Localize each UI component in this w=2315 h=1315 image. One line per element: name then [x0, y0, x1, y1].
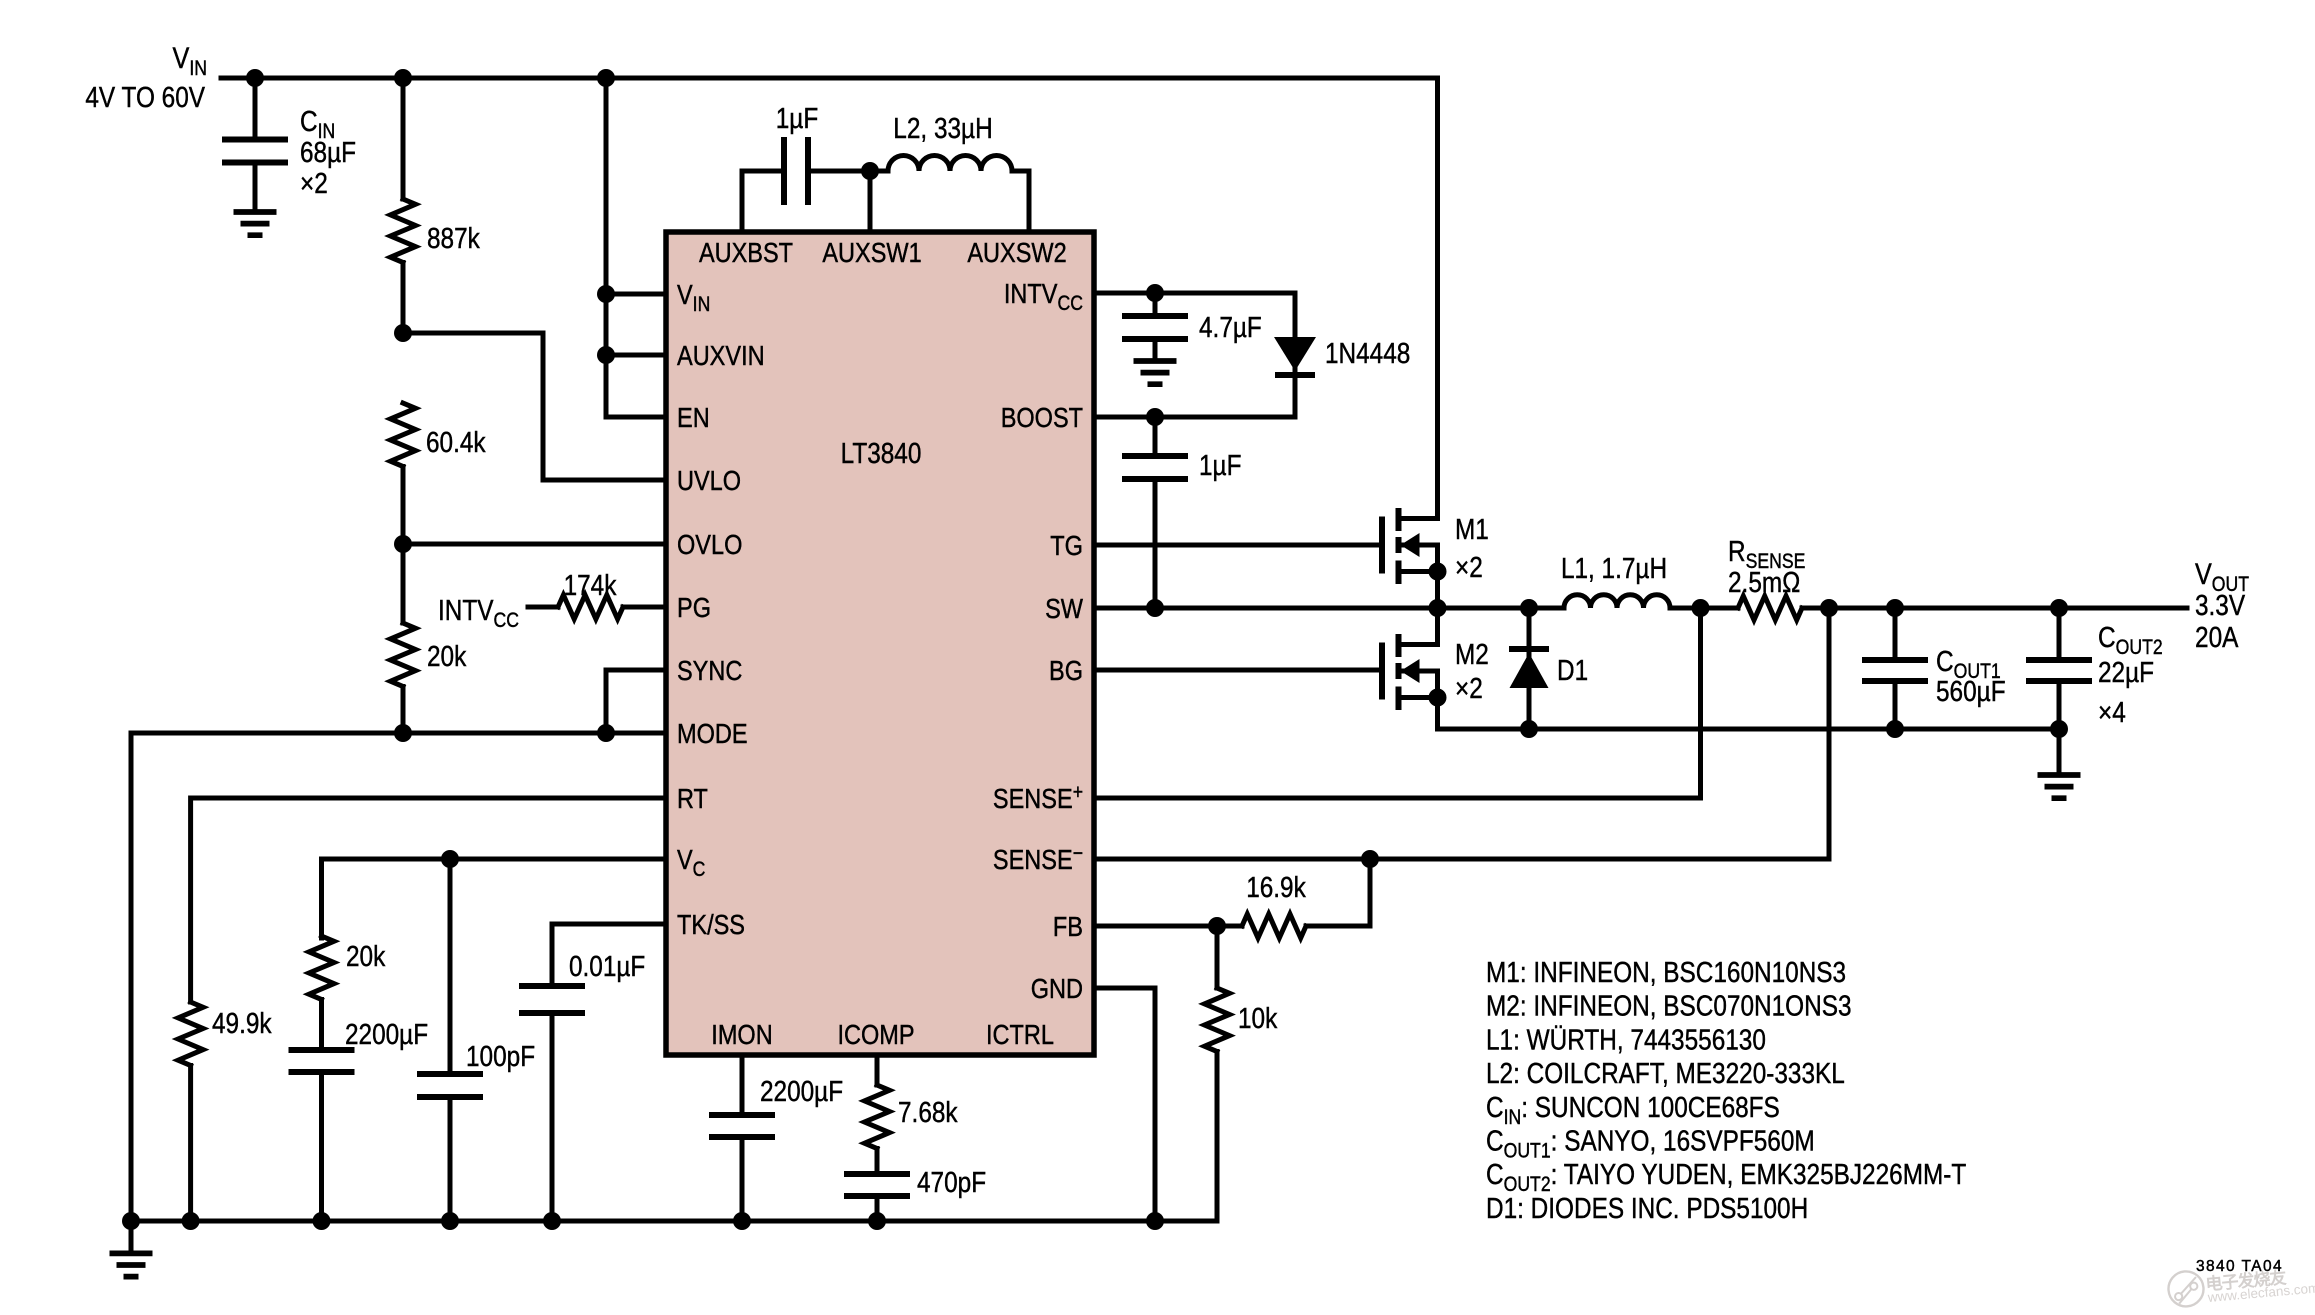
- wire AUXBST loop: [742, 171, 784, 232]
- svg-text:M2: INFINEON, BSC070N1ONS3: M2: INFINEON, BSC070N1ONS3: [1486, 991, 1852, 1023]
- wire BG line: [1094, 668, 1382, 673]
- svg-text:×2: ×2: [1455, 673, 1483, 705]
- junction VIN rail / VIN-AUXVIN branch: [597, 69, 615, 87]
- capacitor 100pF: [417, 859, 535, 1221]
- U1 right pin labels: [993, 278, 1084, 1004]
- junction rail / 0.01uF: [543, 1212, 561, 1230]
- resistor 174k: [528, 570, 666, 619]
- junction SW / 1uF boost return: [1146, 599, 1164, 617]
- capacitor 1uF (BOOST): [1122, 417, 1242, 608]
- wire VC line: [322, 859, 667, 938]
- resistor 887k: [391, 78, 481, 333]
- svg-text:174k: 174k: [564, 570, 617, 602]
- capacitor 470pF: [844, 1167, 986, 1221]
- svg-text:68µF: 68µF: [300, 137, 356, 169]
- svg-text:L1, 1.7µH: L1, 1.7µH: [1561, 553, 1667, 585]
- transistor M2 x2: [1382, 608, 1489, 710]
- svg-text:PG: PG: [677, 592, 711, 623]
- svg-text:TG: TG: [1050, 530, 1083, 561]
- junction COUT2 / output ground rail: [2050, 720, 2068, 738]
- svg-text:2200µF: 2200µF: [760, 1076, 843, 1108]
- junction 60.4k / 20k / OVLO: [394, 535, 412, 553]
- junction SYNC / MODE: [597, 724, 615, 742]
- junction D1 / output ground rail: [1520, 720, 1538, 738]
- svg-text:4.7µF: 4.7µF: [1199, 312, 1262, 344]
- svg-text:VIN: VIN: [173, 42, 208, 80]
- ground (CIN): [234, 212, 277, 235]
- junction VOUT / COUT1: [1886, 599, 1904, 617]
- wire TK/SS line: [552, 924, 666, 986]
- svg-text:49.9k: 49.9k: [212, 1008, 272, 1040]
- wire GND pin to rail: [1094, 988, 1155, 1221]
- svg-text:COUT1: SANYO, 16SVPF560M: COUT1: SANYO, 16SVPF560M: [1486, 1126, 1815, 1163]
- capacitor COUT2 22uF x4: [2026, 608, 2163, 729]
- junction rail / left vertical: [122, 1212, 140, 1230]
- svg-text:RT: RT: [677, 783, 708, 814]
- svg-text:22µF: 22µF: [2098, 657, 2154, 689]
- svg-text:COUT2: COUT2: [2098, 622, 2163, 659]
- svg-text:7.68k: 7.68k: [898, 1097, 958, 1129]
- junction INTVCC / 4.7uF: [1146, 284, 1164, 302]
- junction L1 / RSENSE / SENSE+: [1692, 599, 1710, 617]
- diode 1N4448: [1274, 293, 1410, 417]
- junction VIN pin: [597, 285, 615, 303]
- junction rail / 2200uF VC: [313, 1212, 331, 1230]
- svg-text:L1: WÜRTH, 7443556130: L1: WÜRTH, 7443556130: [1486, 1024, 1766, 1056]
- wire FB line: [1094, 924, 1242, 929]
- svg-text:ICOMP: ICOMP: [837, 1019, 914, 1050]
- svg-text:0.01µF: 0.01µF: [569, 951, 645, 983]
- junction rail / ICOMP network: [868, 1212, 886, 1230]
- svg-text:560µF: 560µF: [1936, 676, 2006, 708]
- svg-text:2.5mΩ: 2.5mΩ: [1728, 567, 1800, 599]
- junction SW / M1 M2: [1429, 599, 1447, 617]
- resistor 10k: [1205, 926, 1278, 1221]
- junction rail / 49.9k: [182, 1212, 200, 1230]
- wire VIN/AUXVIN/EN branch: [606, 78, 666, 417]
- resistor 7.68k: [865, 1055, 959, 1174]
- svg-text:887k: 887k: [427, 223, 480, 255]
- svg-text:BG: BG: [1049, 655, 1083, 686]
- wire M2 source to output ground rail: [1435, 698, 1440, 730]
- svg-text:MODE: MODE: [677, 718, 748, 749]
- svg-text:CIN: SUNCON 100CE68FS: CIN: SUNCON 100CE68FS: [1486, 1092, 1780, 1129]
- svg-text:16.9k: 16.9k: [1246, 872, 1306, 904]
- svg-text:M1: INFINEON, BSC160N10NS3: M1: INFINEON, BSC160N10NS3: [1486, 957, 1846, 989]
- resistor 20k (divider): [391, 544, 467, 733]
- wire SW line: [1094, 606, 1564, 611]
- wire output ground rail: [1438, 727, 2060, 732]
- svg-text:LT3840: LT3840: [841, 438, 922, 470]
- svg-text:60.4k: 60.4k: [426, 427, 486, 459]
- resistor 60.4k: [391, 403, 487, 544]
- svg-text:COUT2: TAIYO YUDEN, EMK325BJ22: COUT2: TAIYO YUDEN, EMK325BJ226MM-T: [1486, 1159, 1967, 1196]
- U1 left pin labels: [677, 279, 765, 940]
- junction GND / bottom rail: [1146, 1212, 1164, 1230]
- svg-text:3.3V: 3.3V: [2195, 590, 2246, 622]
- capacitor 0.01uF: [519, 951, 645, 1221]
- wire SENSE- line: [1094, 608, 1829, 859]
- U1 bottom pin labels IMON ICOMP ICTRL: [711, 1019, 1054, 1050]
- capacitor 4.7uF: [1122, 293, 1262, 359]
- resistor RSENSE 2.5mOhm: [1728, 536, 2187, 620]
- svg-text:M1: M1: [1455, 514, 1489, 546]
- svg-text:INTVCC: INTVCC: [438, 595, 519, 632]
- junction RSENSE / SENSE-: [1820, 599, 1838, 617]
- resistor 20k (VC): [309, 936, 386, 1050]
- svg-text:M2: M2: [1455, 639, 1489, 671]
- svg-text:20k: 20k: [346, 941, 386, 973]
- wire M1 source to SW: [1435, 572, 1440, 609]
- junction rail / IMON cap: [733, 1212, 751, 1230]
- capacitor COUT1 560uF: [1862, 608, 2006, 729]
- wire SYNC to MODE: [606, 670, 666, 733]
- resistor 16.9k: [1242, 859, 1370, 938]
- wire RT line: [191, 798, 666, 1002]
- junction 16.9k / SENSE- line: [1361, 850, 1379, 868]
- svg-text:×2: ×2: [300, 168, 328, 200]
- capacitor 1uF (AUXBST): [776, 103, 819, 205]
- svg-text:20k: 20k: [427, 641, 467, 673]
- watermark elecfans logo and text: [2167, 1260, 2315, 1308]
- junction FB / 10k: [1208, 917, 1226, 935]
- wire INTVCC line: [1094, 291, 1295, 296]
- svg-text:EN: EN: [677, 402, 710, 433]
- svg-text:AUXSW2: AUXSW2: [967, 237, 1066, 268]
- junction VIN rail / 887k divider: [394, 69, 412, 87]
- svg-text:20A: 20A: [2195, 622, 2239, 654]
- svg-text:AUXVIN: AUXVIN: [677, 340, 765, 371]
- svg-text:L2, 33µH: L2, 33µH: [893, 113, 992, 145]
- svg-text:BOOST: BOOST: [1001, 402, 1083, 433]
- wire ground bottom rail: [131, 1219, 1217, 1224]
- svg-text:100pF: 100pF: [466, 1041, 535, 1073]
- svg-text:D1: D1: [1557, 655, 1588, 687]
- svg-text:SENSE+: SENSE+: [993, 781, 1083, 814]
- svg-text:D1: DIODES INC. PDS5100H: D1: DIODES INC. PDS5100H: [1486, 1193, 1808, 1225]
- junction SW / D1: [1520, 599, 1538, 617]
- svg-text:SYNC: SYNC: [677, 655, 742, 686]
- svg-text:1µF: 1µF: [776, 103, 819, 135]
- ground (INTVCC 4.7uF): [1134, 361, 1177, 384]
- U1 top pin labels AUXBST AUXSW1 AUXSW2: [699, 237, 1067, 268]
- wire MODE line: [131, 733, 666, 1221]
- svg-text:TK/SS: TK/SS: [677, 909, 745, 940]
- junction COUT1 / output ground rail: [1886, 720, 1904, 738]
- svg-text:L2: COILCRAFT, ME3220-333KL: L2: COILCRAFT, ME3220-333KL: [1486, 1058, 1845, 1090]
- svg-text:×4: ×4: [2098, 697, 2126, 729]
- ground (main): [110, 1221, 153, 1277]
- inductor L2 33uH: [888, 113, 1029, 232]
- node VIN input label: [85, 42, 207, 114]
- capacitor 2200uF (VC): [289, 1019, 429, 1221]
- wire UVLO branch: [403, 333, 666, 480]
- transistor M1 x2: [1382, 508, 1489, 584]
- svg-text:OVLO: OVLO: [677, 529, 742, 560]
- svg-text:SENSE−: SENSE−: [993, 842, 1083, 875]
- junction divider bottom / MODE line: [394, 724, 412, 742]
- diode D1: [1509, 608, 1588, 729]
- svg-text:4V TO 60V: 4V TO 60V: [85, 82, 205, 114]
- component list text block: [1486, 957, 1967, 1225]
- svg-text:IMON: IMON: [711, 1019, 772, 1050]
- svg-text:AUXSW1: AUXSW1: [822, 237, 921, 268]
- wire SENSE+ line: [1094, 608, 1701, 798]
- ground (COUT2): [2038, 729, 2081, 798]
- svg-text:AUXBST: AUXBST: [699, 237, 793, 268]
- resistor 49.9k: [178, 1002, 272, 1221]
- op-amp U1 LT3840 controller body: [666, 232, 1094, 1055]
- svg-text:FB: FB: [1053, 911, 1083, 942]
- node VOUT output label: [2195, 558, 2249, 654]
- junction AUXVIN pin: [597, 346, 615, 364]
- wire OVLO branch: [403, 542, 666, 547]
- wire BOOST line: [1094, 415, 1295, 420]
- svg-text:GND: GND: [1031, 973, 1083, 1004]
- svg-text:470pF: 470pF: [917, 1167, 986, 1199]
- wire VIN top rail: [221, 76, 1438, 81]
- junction 887k / 60.4k / UVLO: [394, 324, 412, 342]
- capacitor CIN 68uF x2: [222, 78, 356, 210]
- svg-text:SW: SW: [1045, 593, 1083, 624]
- svg-text:ICTRL: ICTRL: [986, 1019, 1054, 1050]
- svg-text:UVLO: UVLO: [677, 465, 741, 496]
- junction VOUT / COUT2: [2050, 599, 2068, 617]
- wire TG line: [1094, 543, 1382, 548]
- junction AUXSW1: [861, 162, 879, 180]
- inductor L1 1.7uH: [1561, 553, 1738, 608]
- svg-text:1N4448: 1N4448: [1325, 338, 1410, 370]
- svg-text:10k: 10k: [1238, 1003, 1278, 1035]
- svg-text:×2: ×2: [1455, 552, 1483, 584]
- wire AUXSW1 link: [808, 171, 888, 232]
- wire M1 drain from VIN rail: [1435, 78, 1440, 519]
- junction BOOST / 1uF: [1146, 408, 1164, 426]
- junction VIN rail / CIN: [246, 69, 264, 87]
- capacitor 2200uF (IMON): [709, 1055, 843, 1221]
- svg-text:2200µF: 2200µF: [345, 1019, 428, 1051]
- junction rail / 100pF: [441, 1212, 459, 1230]
- svg-text:1µF: 1µF: [1199, 450, 1242, 482]
- junction VC / 100pF: [441, 850, 459, 868]
